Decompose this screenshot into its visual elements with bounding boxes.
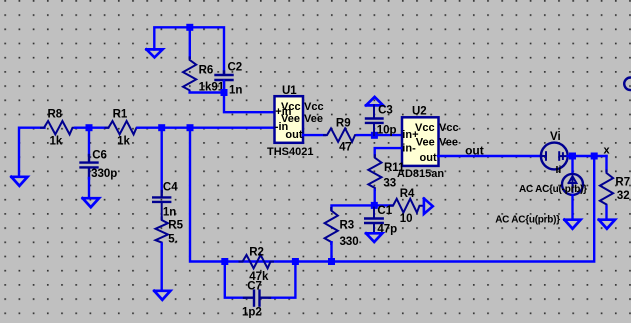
- wire: C4 branch: [160, 128, 162, 192]
- port arrow right of R4: [424, 199, 433, 214]
- wire: main rail R1 to U1 -in: [138, 126, 275, 128]
- svg-text:in-: in-: [402, 143, 416, 155]
- svg-text:Vee: Vee: [304, 113, 323, 125]
- svg-text:Vi: Vi: [550, 131, 561, 143]
- ground G4 under R5: [154, 291, 170, 300]
- svg-text:out: out: [285, 129, 302, 141]
- ground G2 top: [146, 49, 162, 57]
- junction: R11/C1/R3/R4 node: [371, 202, 378, 209]
- svg-text:C2: C2: [228, 62, 243, 74]
- svg-text:out: out: [420, 152, 437, 164]
- svg-text:x: x: [604, 144, 611, 156]
- wire: R6 top stub: [189, 27, 191, 58]
- wire: C3 bottom stub: [373, 124, 375, 136]
- wire: C6 to ground: [88, 178, 90, 198]
- svg-text:1n: 1n: [163, 207, 176, 219]
- ground G5 under C1: [366, 233, 382, 242]
- svg-text:out: out: [465, 144, 484, 158]
- resistor R8: [41, 121, 75, 134]
- svg-text:5.: 5.: [168, 234, 178, 246]
- svg-text:1k: 1k: [117, 136, 130, 148]
- wire: R3 bottom to rail: [330, 242, 332, 261]
- resistor R5: [156, 218, 168, 245]
- junction: R6/C2 node: [221, 89, 228, 96]
- capacitor C2: [216, 72, 233, 90]
- ground G3 under C6: [83, 198, 99, 207]
- wire: R7 to ground: [605, 206, 607, 219]
- capacitor C6 branch wire: [88, 128, 90, 156]
- wire: R6 bottom to C2 node: [190, 91, 224, 93]
- svg-text:R8: R8: [48, 108, 63, 120]
- junction: R9/C3/U2 node: [371, 132, 378, 139]
- svg-text:33: 33: [383, 178, 396, 190]
- svg-text:C6: C6: [92, 150, 107, 162]
- junction: rail/C4: [158, 124, 165, 131]
- svg-text:R2: R2: [249, 247, 264, 259]
- svg-text:Ii: Ii: [556, 164, 562, 176]
- op-amp U1 box: [275, 96, 304, 143]
- flipped ground above C3: [366, 97, 383, 106]
- svg-text:Vcc: Vcc: [439, 122, 459, 134]
- svg-text:R3: R3: [340, 219, 355, 231]
- svg-text:R6: R6: [199, 64, 214, 76]
- wire: U1 out to R9: [303, 134, 325, 136]
- junction: x node: [591, 153, 598, 160]
- svg-text:R11: R11: [384, 162, 405, 174]
- resistor R3: [325, 208, 338, 244]
- resistor R11: [368, 155, 381, 190]
- svg-text:330p: 330p: [91, 168, 117, 180]
- svg-text:1n: 1n: [229, 85, 242, 97]
- junction: bottom rail/C7 right: [292, 258, 299, 265]
- wire: node to R3 top: [332, 205, 375, 209]
- svg-text:1p2: 1p2: [242, 307, 262, 319]
- junction: top rail/R6: [186, 24, 193, 31]
- svg-text:32: 32: [617, 190, 630, 202]
- current source Ii (AC): [562, 174, 583, 195]
- svg-text:R9: R9: [336, 118, 351, 130]
- wire: between R8 and R1: [75, 126, 108, 128]
- svg-text:THS4021: THS4021: [267, 146, 313, 158]
- wire: C1 stub: [373, 205, 375, 217]
- svg-text:Vee: Vee: [416, 136, 435, 148]
- wire: top rail from ground to C2 corner: [154, 27, 224, 74]
- svg-text:R1: R1: [113, 108, 128, 120]
- U1 pin labels: [275, 101, 324, 141]
- capacitor C7: [244, 291, 270, 306]
- op-amp U2 box: [402, 117, 439, 166]
- wire: Ii branch top: [571, 156, 573, 174]
- capacitor C3: [366, 119, 383, 123]
- wire: feedback drop from rail down to bottom rail: [190, 128, 225, 262]
- wire: C7 loop: [225, 262, 245, 298]
- voltage source Vi: [541, 143, 568, 170]
- svg-text:C3: C3: [378, 104, 393, 116]
- capacitor C6: [81, 155, 98, 179]
- svg-text:10: 10: [400, 213, 413, 225]
- junction: rail/feedback drop: [187, 124, 194, 131]
- wire: C2 bottom down to U1 +in: [224, 81, 274, 112]
- resistor R4: [390, 199, 422, 213]
- partial circle at right edge: [624, 78, 631, 91]
- ground G6 under Ii: [564, 220, 580, 229]
- svg-text:330: 330: [340, 236, 359, 248]
- ground G7 under R7: [599, 220, 615, 229]
- resistor R1: [106, 121, 140, 134]
- svg-text:C1: C1: [377, 205, 392, 217]
- svg-text:AC AC{u(prb)}: AC AC{u(prb)}: [495, 214, 560, 225]
- wire: x node down to R7: [605, 156, 607, 171]
- wire: Vi to x node: [568, 155, 607, 157]
- svg-text:Vee: Vee: [439, 136, 458, 148]
- wire: R9 to U2 in+: [357, 134, 401, 136]
- capacitor C1: [365, 219, 383, 224]
- resistor R7: [600, 171, 613, 207]
- svg-text:1k: 1k: [50, 136, 63, 148]
- svg-text:47: 47: [339, 142, 352, 154]
- junction: Ii top: [569, 153, 576, 160]
- svg-text:U2: U2: [412, 106, 427, 118]
- junction: bottom rail/R3: [328, 258, 335, 265]
- junction: rail/C6: [86, 124, 93, 131]
- svg-text:R5: R5: [168, 219, 183, 231]
- wire: R5 to ground: [160, 244, 162, 291]
- wire: left input rail and vertical to ground: [19, 128, 45, 177]
- svg-text:Vcc: Vcc: [304, 101, 324, 113]
- wire: C3 top stub: [373, 105, 375, 118]
- wire: U2 in- to R11: [375, 148, 401, 155]
- wire: R11 bottom to node: [374, 190, 376, 205]
- wire: bottom feedback rail: [225, 156, 594, 262]
- svg-text:C7: C7: [247, 281, 262, 293]
- svg-text:R4: R4: [400, 188, 415, 200]
- wire: C1 to ground: [373, 224, 375, 234]
- U2 pin labels: [402, 122, 458, 164]
- wire: node to R4: [375, 204, 392, 206]
- junction: bottom rail/C7 left: [221, 258, 228, 265]
- resistor R6: [183, 57, 196, 92]
- ground G1 left: [11, 177, 27, 186]
- svg-text:10p: 10p: [377, 125, 397, 137]
- svg-text:U1: U1: [282, 85, 297, 97]
- wire: out net U2 to Vi: [438, 155, 542, 157]
- capacitor C4: [153, 191, 170, 219]
- resistor R9: [324, 128, 358, 141]
- svg-text:R7: R7: [615, 177, 630, 189]
- wire: Ii to ground: [571, 195, 573, 220]
- svg-text:C4: C4: [163, 182, 178, 194]
- svg-text:AC AC{u(-prb)}: AC AC{u(-prb)}: [519, 184, 587, 195]
- resistor R2: [240, 255, 274, 268]
